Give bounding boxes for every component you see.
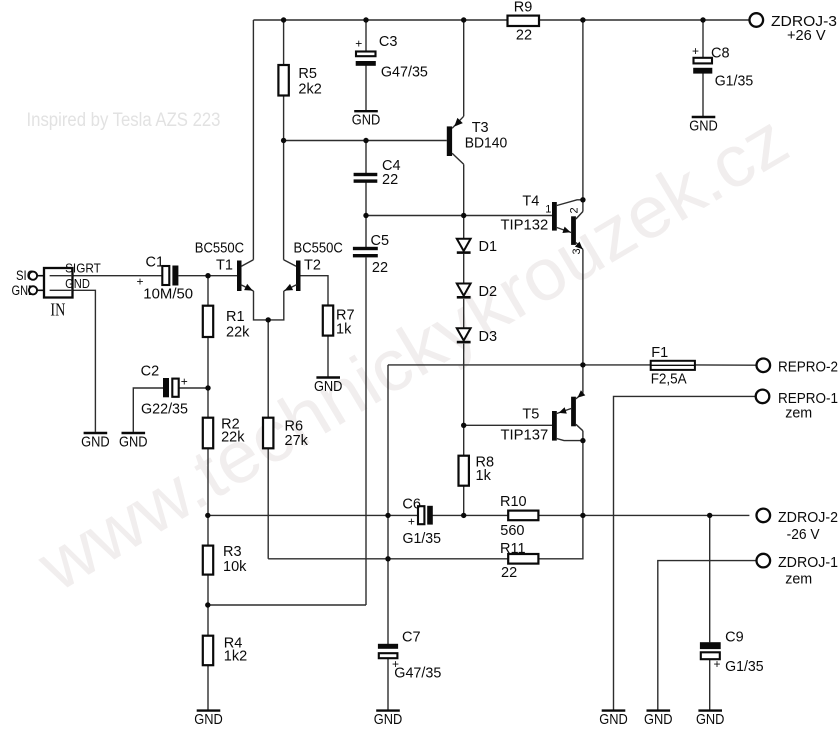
- svg-text:+: +: [713, 657, 720, 671]
- svg-text:TIP132: TIP132: [501, 218, 549, 234]
- svg-text:2k2: 2k2: [298, 82, 321, 98]
- svg-text:560: 560: [500, 523, 524, 539]
- svg-text:R5: R5: [298, 66, 317, 82]
- svg-text:-26 V: -26 V: [787, 526, 820, 543]
- svg-text:G1/35: G1/35: [403, 531, 442, 547]
- svg-text:C9: C9: [725, 630, 744, 646]
- svg-text:BD140: BD140: [465, 136, 508, 152]
- svg-text:+: +: [136, 275, 143, 289]
- svg-text:+: +: [692, 44, 699, 58]
- svg-text:GND: GND: [374, 711, 403, 728]
- svg-text:R9: R9: [514, 0, 533, 16]
- svg-text:27k: 27k: [285, 433, 309, 449]
- svg-text:+: +: [355, 37, 362, 51]
- svg-text:C5: C5: [371, 233, 390, 249]
- svg-text:GND: GND: [689, 118, 718, 135]
- svg-text:10k: 10k: [223, 559, 247, 575]
- svg-text:R10: R10: [500, 494, 527, 510]
- svg-text:GND: GND: [352, 112, 381, 129]
- svg-text:C7: C7: [402, 630, 421, 646]
- svg-text:GND: GND: [696, 711, 725, 728]
- svg-text:D3: D3: [479, 329, 498, 345]
- svg-text:G1/35: G1/35: [725, 659, 764, 675]
- svg-text:10M/50: 10M/50: [143, 287, 193, 303]
- svg-text:zem: zem: [785, 405, 812, 422]
- svg-text:C8: C8: [711, 46, 730, 62]
- svg-text:GND: GND: [119, 434, 148, 451]
- svg-text:ZDROJ-1: ZDROJ-1: [778, 554, 838, 571]
- svg-text:1k: 1k: [336, 322, 352, 338]
- svg-text:22: 22: [382, 172, 398, 188]
- svg-text:T5: T5: [522, 407, 539, 423]
- svg-text:22k: 22k: [221, 430, 245, 446]
- svg-text:G47/35: G47/35: [394, 666, 441, 682]
- svg-text:22: 22: [372, 260, 388, 276]
- svg-text:GND: GND: [81, 434, 110, 451]
- svg-text:T3: T3: [472, 120, 489, 136]
- svg-text:C1: C1: [146, 255, 165, 271]
- svg-text:zem: zem: [785, 571, 812, 588]
- svg-text:BC550C: BC550C: [195, 241, 244, 257]
- svg-text:G22/35: G22/35: [141, 402, 188, 418]
- svg-text:D1: D1: [479, 239, 498, 255]
- svg-text:+: +: [181, 375, 188, 389]
- svg-text:2: 2: [569, 207, 581, 213]
- svg-text:SIGRT: SIGRT: [65, 261, 101, 276]
- svg-text:BC550C: BC550C: [294, 241, 343, 257]
- svg-text:22: 22: [516, 28, 532, 44]
- svg-text:F1: F1: [651, 345, 668, 361]
- svg-text:C2: C2: [141, 364, 160, 380]
- svg-text:ZDROJ-2: ZDROJ-2: [778, 509, 838, 526]
- svg-text:T1: T1: [216, 258, 233, 274]
- svg-text:T2: T2: [304, 258, 321, 274]
- svg-text:GND: GND: [194, 711, 223, 728]
- svg-text:G1/35: G1/35: [715, 74, 754, 90]
- svg-text:1k: 1k: [476, 468, 492, 484]
- svg-text:22k: 22k: [226, 325, 250, 341]
- svg-text:R1: R1: [226, 309, 245, 325]
- svg-text:GND: GND: [314, 378, 343, 395]
- svg-text:3: 3: [571, 248, 583, 254]
- svg-text:C3: C3: [379, 34, 398, 50]
- svg-text:22: 22: [501, 565, 517, 581]
- svg-text:T4: T4: [522, 194, 539, 210]
- svg-text:GND: GND: [644, 711, 673, 728]
- svg-text:GND: GND: [599, 711, 628, 728]
- svg-text:REPRO-2: REPRO-2: [778, 359, 838, 376]
- svg-text:G47/35: G47/35: [381, 65, 428, 81]
- svg-text:Inspired by Tesla AZS 223: Inspired by Tesla AZS 223: [27, 110, 221, 131]
- svg-text:1k2: 1k2: [224, 649, 247, 665]
- svg-text:GND: GND: [65, 276, 90, 291]
- svg-text:+26 V: +26 V: [787, 27, 826, 44]
- svg-text:IN: IN: [50, 300, 65, 320]
- svg-text:+: +: [408, 515, 415, 529]
- svg-text:C6: C6: [402, 497, 421, 513]
- svg-text:1: 1: [545, 204, 551, 216]
- svg-text:+: +: [392, 657, 399, 671]
- svg-text:D2: D2: [479, 284, 498, 300]
- svg-text:R3: R3: [223, 544, 242, 560]
- svg-text:F2,5A: F2,5A: [651, 371, 687, 387]
- svg-text:R11: R11: [500, 541, 526, 557]
- svg-text:TIP137: TIP137: [501, 428, 549, 444]
